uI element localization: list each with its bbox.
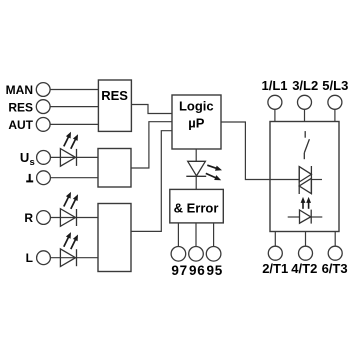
svg-text:95: 95 <box>206 263 222 278</box>
svg-text:1/L1: 1/L1 <box>261 78 287 93</box>
svg-text:s: s <box>30 157 35 168</box>
svg-text:2/T1: 2/T1 <box>262 261 288 276</box>
svg-text:6/T3: 6/T3 <box>322 261 348 276</box>
svg-text:RES: RES <box>101 88 128 103</box>
svg-text:L: L <box>26 251 33 265</box>
svg-text:MAN: MAN <box>6 83 33 97</box>
svg-text:5/L3: 5/L3 <box>322 78 348 93</box>
svg-text:RES: RES <box>8 101 33 115</box>
svg-text:R: R <box>24 211 33 225</box>
svg-text:4/T2: 4/T2 <box>291 261 317 276</box>
svg-text:96: 96 <box>189 263 205 278</box>
svg-text:µP: µP <box>188 115 204 130</box>
svg-text:U: U <box>20 150 29 165</box>
svg-text:Logic: Logic <box>179 99 214 114</box>
svg-text:3/L2: 3/L2 <box>292 78 318 93</box>
svg-text:& Error: & Error <box>174 201 219 216</box>
svg-text:AUT: AUT <box>8 118 33 132</box>
svg-text:97: 97 <box>171 263 187 278</box>
